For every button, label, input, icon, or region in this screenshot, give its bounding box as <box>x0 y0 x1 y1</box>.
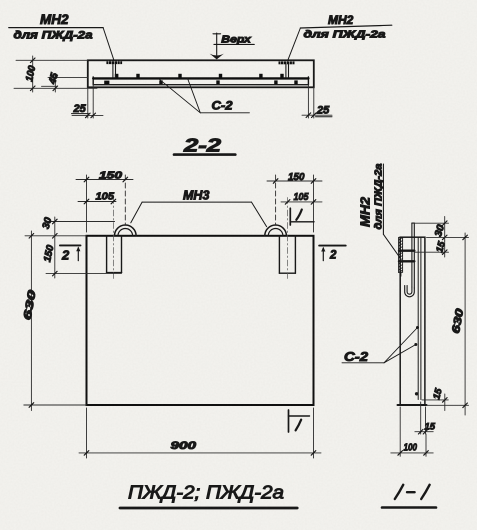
title 1-1 <box>382 485 436 508</box>
embed cross rungs (section 1-1) <box>399 251 414 262</box>
loop anchor left <box>107 236 122 273</box>
dimension 105 top-left <box>78 199 116 204</box>
embed anchor bar with hook (section 1-1) <box>405 223 415 297</box>
dimension 15 bottom-right vertical <box>422 394 448 411</box>
embed plate MH2 left <box>106 61 122 64</box>
mesh cross-bar dots below <box>104 80 297 84</box>
label MH3 with leader <box>131 189 267 227</box>
embed plate MH2 right <box>279 61 295 64</box>
dimension 100 (below 1-1) <box>391 407 433 456</box>
title 2-2 <box>174 136 235 156</box>
dimension chain 30 + 150 (left) <box>46 217 122 278</box>
dimension 45 (left of section 2-2) <box>48 74 88 93</box>
section marker 2 right <box>319 246 346 262</box>
title PZD-2; PZD-2a <box>120 482 297 509</box>
panel outline <box>87 236 314 405</box>
embed anchor stem right <box>286 64 289 77</box>
embed plate MH2 hatched (section 1-1) <box>399 237 403 276</box>
embed anchor stem left <box>113 64 116 77</box>
dimension 15 bottom horizontal (mesh offset) <box>415 402 433 434</box>
label MH2 rotated (section 1-1) <box>358 163 385 234</box>
Verh (top) mark <box>210 33 255 59</box>
dimension 630 (right of 1-1) <box>427 233 469 415</box>
dimension 30 (right of 1-1) <box>414 217 448 242</box>
mesh C-2 top bar <box>93 77 308 85</box>
dimension 150 top-right <box>267 175 322 232</box>
centerline right anchor <box>287 198 289 282</box>
mesh C-2 bottom line <box>93 84 308 86</box>
dimension 630 (left) <box>24 231 87 411</box>
lifting loop MH3 right <box>265 225 287 236</box>
section marker 2 left <box>60 245 81 262</box>
dimension 15 top (right of 1-1) <box>414 241 448 257</box>
dimension 25 left (section 2-2) <box>72 85 103 118</box>
section marker 1 top <box>290 208 314 225</box>
label C-2 with leaders (section 1-1) <box>342 326 419 364</box>
dimension 25 right (section 2-2) <box>302 85 332 118</box>
section marker 1 bottom <box>289 410 310 432</box>
centerline left anchor <box>112 198 114 282</box>
leader MH2 left <box>103 28 114 61</box>
mesh C-2 (section 1-1) <box>415 238 421 400</box>
leader MH2 right <box>288 28 301 61</box>
slab outline (section 1-1) <box>398 237 427 405</box>
label MH2 right <box>300 13 391 41</box>
dimension 105 top-right <box>281 200 322 205</box>
dimension 900 <box>79 408 321 458</box>
leader MH2 (section 1-1) <box>383 234 399 257</box>
lifting loop MH3 left <box>115 225 137 236</box>
dimension 150 top-left <box>76 175 133 232</box>
mesh cross-bar dots above <box>115 74 284 78</box>
dimension 100 (left of section 2-2) <box>14 56 97 92</box>
label MH2 left <box>9 12 103 42</box>
loop anchor right <box>279 236 295 273</box>
beam outline (panel section 2-2) <box>88 60 314 87</box>
label C-2 (section 2-2) <box>212 99 233 113</box>
leader C-2 (section 2-2) <box>159 79 250 113</box>
